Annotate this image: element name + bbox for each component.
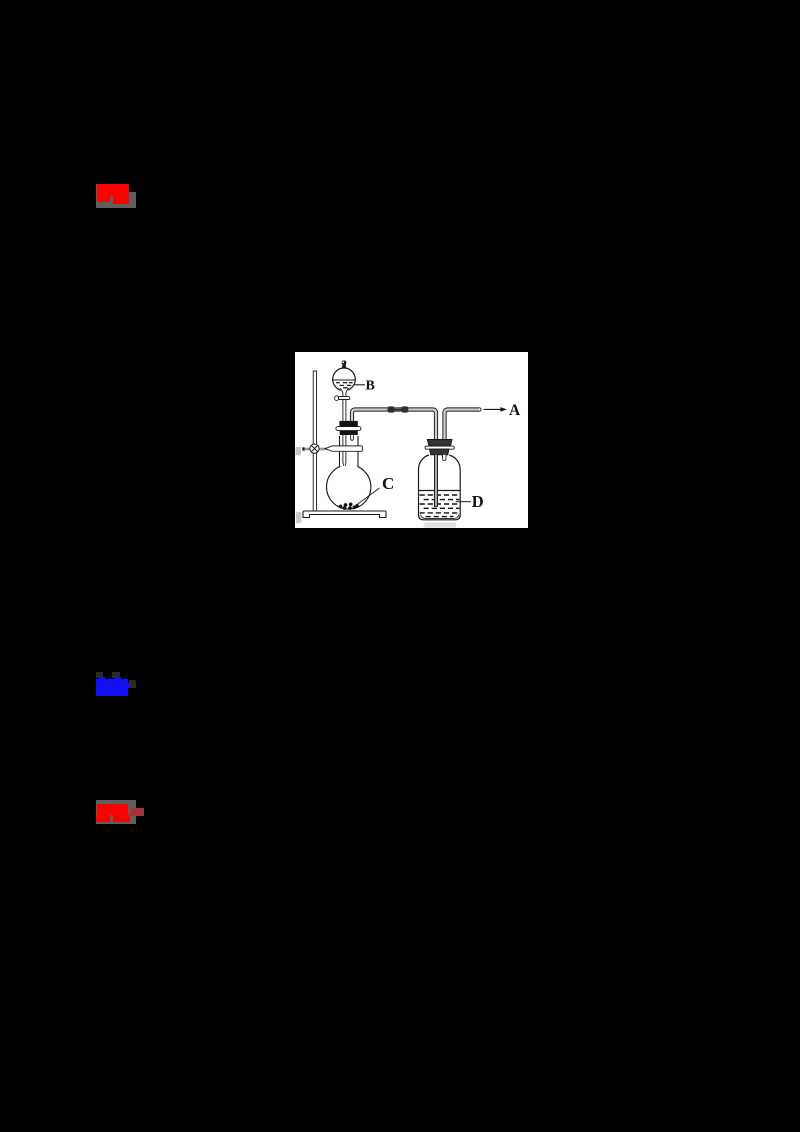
open end cap of outlet tube — [479, 408, 481, 411]
gray edge artifact left clamp level — [296, 447, 302, 455]
clamp arm — [325, 446, 362, 451]
liquid level in bottle — [419, 490, 460, 492]
short outlet stub inside flask neck — [351, 435, 354, 440]
clamp bolt — [310, 444, 319, 453]
liquid dashes in funnel — [336, 383, 353, 388]
rubber connector joints on tube — [394, 409, 402, 411]
solid particles C in flask — [339, 502, 359, 509]
flask stopper (black, two-hole) — [339, 421, 357, 427]
flask (round-bottom) — [327, 465, 371, 509]
svg-text:B: B — [366, 379, 375, 394]
svg-text:D: D — [472, 492, 484, 511]
inner bottom line of bottle — [420, 515, 459, 519]
liquid dashes in bottle — [420, 495, 460, 517]
delivery tube: flask to bottle — [352, 410, 436, 441]
red heading label 2 on gray highlight — [96, 800, 136, 824]
diagram white box — [295, 352, 528, 528]
shadow under bottle D — [424, 522, 456, 527]
label D with pointer line — [456, 501, 471, 503]
stand base — [303, 511, 386, 518]
gray edge artifact bottom left — [296, 512, 302, 523]
dropping funnel stem — [343, 393, 346, 466]
svg-text:C: C — [382, 474, 394, 493]
svg-text:A: A — [509, 402, 521, 419]
red heading label 1 on gray highlight — [96, 184, 129, 208]
dropping funnel B bulb — [333, 368, 356, 391]
clamp screw bar — [305, 448, 312, 451]
label B with pointer line — [354, 384, 365, 386]
blue label — [96, 672, 103, 678]
dark red dash — [130, 808, 144, 816]
funnel stem flare junction — [340, 389, 348, 394]
short outlet stub below bottle stopper — [443, 455, 446, 461]
bottle stopper dark parts — [427, 439, 452, 446]
funnel top stopper knob — [341, 366, 347, 369]
bottle mouth collar — [425, 446, 454, 449]
liquid level in funnel — [333, 379, 355, 381]
stopcock on funnel stem — [339, 397, 350, 400]
inlet tube inside bottle (into liquid) — [434, 455, 438, 507]
gas washing bottle body — [419, 455, 461, 520]
label C with pointer line — [357, 488, 380, 505]
arrow to A — [484, 408, 502, 410]
tube: bottle outlet to open end — [445, 410, 480, 441]
stand rod — [313, 371, 316, 511]
